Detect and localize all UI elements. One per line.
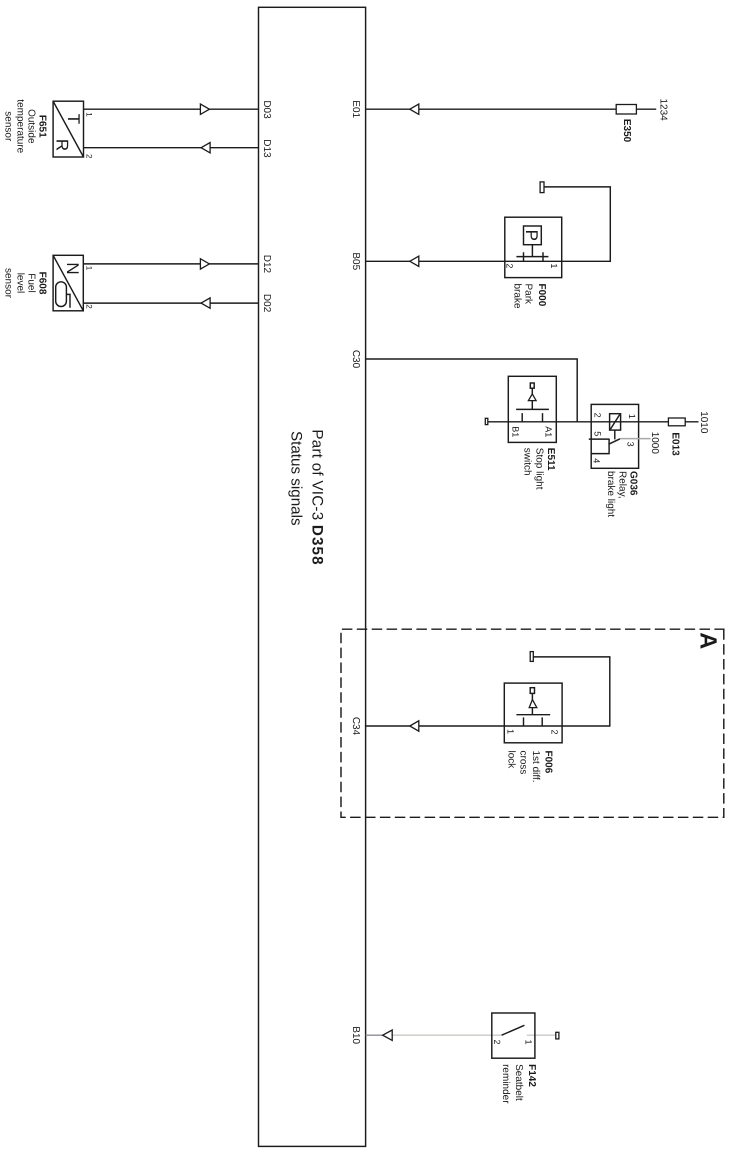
arrow into E01 — [410, 104, 419, 114]
F651 diagonal — [53, 101, 83, 157]
svg-text:C30: C30 — [350, 350, 361, 369]
arrow D12 up — [200, 259, 209, 269]
svg-text:Status signals: Status signals — [288, 431, 305, 526]
E511 contact stubs A1 B1 — [522, 413, 542, 422]
svg-text:1010: 1010 — [698, 411, 709, 434]
coil diagonal — [610, 414, 619, 429]
dashed region A — [341, 629, 724, 817]
svg-text:1: 1 — [549, 263, 559, 268]
svg-text:2: 2 — [550, 730, 560, 735]
svg-text:F608: F608 — [36, 272, 47, 295]
relay blade — [609, 439, 621, 445]
E511 actuator plug square — [530, 383, 534, 388]
svg-text:sensor: sensor — [2, 268, 13, 299]
float arm — [66, 294, 70, 307]
svg-text:1: 1 — [85, 266, 94, 271]
svg-text:A: A — [696, 632, 722, 649]
svg-text:Stop light: Stop light — [533, 448, 544, 490]
svg-text:D02: D02 — [261, 294, 272, 313]
svg-text:D12: D12 — [261, 255, 272, 274]
svg-text:B1: B1 — [510, 426, 520, 437]
svg-text:R: R — [52, 139, 71, 151]
diff lock switch F006 box — [504, 683, 562, 743]
arrow into B05 — [410, 256, 419, 266]
E511 actuator triangle — [528, 394, 536, 401]
svg-text:2: 2 — [85, 304, 94, 309]
svg-text:T: T — [64, 114, 83, 124]
wire D13 — [84, 147, 259, 149]
E511 contact bar — [516, 408, 549, 410]
svg-text:2: 2 — [85, 154, 94, 159]
ECU box D358 Part of VIC-3 — [259, 7, 366, 1146]
wire D02 — [83, 302, 258, 304]
arrow D03 up — [200, 104, 209, 114]
stop light switch E511 box — [508, 376, 556, 442]
gray leader to 1000 — [620, 438, 651, 440]
svg-text:B10: B10 — [350, 1026, 361, 1044]
F006 actuator line — [531, 693, 533, 714]
svg-text:2: 2 — [505, 263, 515, 268]
F006 contact bar — [516, 714, 550, 716]
arrow D13 down — [201, 143, 210, 153]
svg-text:N: N — [63, 262, 82, 274]
svg-text:1234: 1234 — [658, 98, 669, 121]
arrow D02 down — [201, 298, 210, 308]
main stoplight wire vertical — [485, 421, 698, 423]
svg-text:E511: E511 — [545, 448, 556, 471]
svg-text:Part of VIC-3 D358: Part of VIC-3 D358 — [309, 429, 326, 565]
svg-text:D03: D03 — [261, 100, 272, 119]
relay G036 box — [591, 404, 638, 468]
park brake switch F000 box — [505, 217, 562, 277]
F608 diagonal — [53, 255, 83, 310]
contact bar F000 — [516, 256, 548, 258]
svg-text:Park: Park — [523, 284, 534, 306]
svg-text:lock: lock — [506, 751, 517, 770]
wire E01 vertical — [366, 108, 657, 110]
plug at bottom of stoplight wire — [485, 418, 488, 424]
svg-text:brake: brake — [512, 284, 523, 309]
wire C30 — [366, 359, 578, 422]
arrow into B10 — [383, 1030, 393, 1040]
svg-text:1: 1 — [506, 729, 516, 734]
svg-text:E01: E01 — [350, 100, 361, 118]
svg-text:cross: cross — [518, 751, 529, 775]
svg-text:1: 1 — [524, 1040, 534, 1045]
svg-text:C34: C34 — [350, 717, 361, 736]
seat belt blade — [502, 1025, 525, 1035]
plug above F142 — [556, 1032, 559, 1039]
wire C34 — [366, 657, 610, 726]
svg-text:P: P — [522, 230, 541, 241]
plug at diff lock feed — [530, 652, 533, 662]
svg-text:E013: E013 — [670, 432, 681, 456]
svg-text:F000: F000 — [536, 284, 547, 307]
svg-text:Relay,: Relay, — [616, 471, 627, 499]
E511 actuator line — [531, 388, 533, 409]
wire B05 vertical — [366, 187, 611, 261]
wire D12 — [83, 263, 258, 265]
svg-text:Fuel: Fuel — [25, 273, 36, 292]
svg-text:switch: switch — [522, 448, 533, 476]
svg-text:G036: G036 — [627, 471, 638, 496]
svg-text:Outside: Outside — [25, 109, 36, 144]
svg-text:F142: F142 — [526, 1064, 537, 1087]
P stem — [531, 245, 533, 257]
temp sensor F651 box — [53, 101, 83, 157]
svg-text:4: 4 — [591, 458, 601, 463]
svg-text:2: 2 — [592, 413, 602, 418]
wire D03 — [84, 108, 259, 110]
P indicator square — [524, 226, 542, 245]
coil link — [614, 430, 616, 439]
svg-text:1000: 1000 — [649, 432, 660, 455]
svg-text:D13: D13 — [261, 139, 272, 158]
plug at park brake feed — [540, 182, 544, 193]
svg-text:5: 5 — [592, 431, 602, 436]
svg-text:2: 2 — [492, 1040, 502, 1045]
fuse E350 — [616, 105, 636, 115]
svg-text:F651: F651 — [36, 115, 47, 138]
gray wire B10 — [392, 1034, 556, 1036]
svg-text:1: 1 — [85, 112, 94, 117]
svg-text:sensor: sensor — [2, 111, 13, 142]
F006 contact stubs — [524, 717, 543, 726]
fuse E013 — [668, 418, 685, 426]
fuel float symbol — [56, 282, 67, 307]
relay coil — [610, 414, 621, 430]
seat belt switch F142 box — [492, 1013, 535, 1058]
svg-text:1st diff.: 1st diff. — [530, 751, 541, 783]
pin5 stub — [589, 438, 610, 440]
svg-text:reminder: reminder — [500, 1064, 511, 1104]
F006 actuator plug square — [530, 688, 534, 694]
svg-text:1: 1 — [627, 414, 637, 419]
svg-text:level: level — [14, 273, 25, 294]
F006 actuator triangle — [529, 700, 537, 708]
pin4 L wire — [591, 439, 609, 454]
svg-text:Seatbelt: Seatbelt — [513, 1064, 524, 1101]
svg-text:B05: B05 — [350, 252, 361, 270]
svg-text:F006: F006 — [543, 751, 554, 774]
contact ticks F000 — [524, 252, 544, 261]
fuel sensor F608 box — [53, 255, 83, 310]
svg-text:temperature: temperature — [14, 99, 25, 153]
arrow into C34 — [410, 721, 419, 731]
svg-text:A1: A1 — [544, 426, 554, 437]
dark gray segment at ECU — [366, 1034, 383, 1036]
svg-text:3: 3 — [626, 442, 636, 447]
svg-text:E350: E350 — [621, 119, 632, 143]
svg-text:brake light: brake light — [605, 471, 616, 517]
